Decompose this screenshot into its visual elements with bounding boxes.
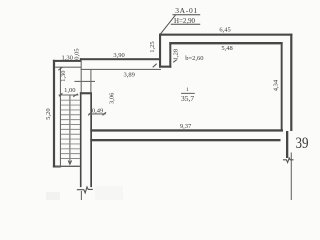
svg-text:9,37: 9,37 <box>180 123 192 130</box>
svg-text:6,45: 6,45 <box>219 27 230 34</box>
svg-text:0,49: 0,49 <box>92 107 103 114</box>
svg-text:5,20: 5,20 <box>45 108 52 119</box>
svg-text:3,06: 3,06 <box>109 92 116 104</box>
svg-text:1,25: 1,25 <box>149 41 156 52</box>
svg-text:5,48: 5,48 <box>221 45 232 52</box>
svg-text:4,34: 4,34 <box>272 79 279 91</box>
svg-text:39: 39 <box>296 135 309 152</box>
svg-text:3A-01: 3A-01 <box>175 6 197 15</box>
svg-text:35,7: 35,7 <box>181 94 194 103</box>
svg-text:3,89: 3,89 <box>124 71 135 78</box>
svg-text:H=2,90: H=2,90 <box>174 16 195 25</box>
svg-text:0,05: 0,05 <box>74 48 81 59</box>
svg-text:b=2,60: b=2,60 <box>185 55 203 62</box>
svg-text:1: 1 <box>186 87 189 93</box>
svg-text:1,00: 1,00 <box>64 87 75 94</box>
svg-text:3,90: 3,90 <box>113 52 124 59</box>
svg-text:1,28: 1,28 <box>173 49 180 60</box>
svg-text:1,30: 1,30 <box>62 55 73 62</box>
svg-text:1,30: 1,30 <box>60 71 67 82</box>
